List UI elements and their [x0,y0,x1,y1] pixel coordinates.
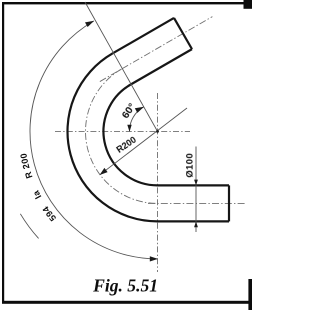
centerline: horizontal pipe axis [148,202,245,204]
center point [156,130,159,133]
border frame left [2,2,4,303]
pipe inner edge arc R54 [103,85,157,186]
dimension: big developed-length arc R127.5 [30,21,158,259]
pipe horizontal bottom edge [158,220,230,222]
dimension: radius line at 120deg to bend start [85,2,158,131]
border frame bottom-right stub [248,279,252,310]
dimension: R200 radius leader line [100,108,187,175]
arrowhead big arc top [85,21,94,27]
arc-length symbol under 594 [20,214,38,239]
border frame top-right stub [244,0,253,9]
pipe inclined end cap [174,18,192,49]
pipe inclined outer edge [113,18,174,54]
arrowhead big arc bottom [150,256,158,261]
centerline: bend arc centerline R72 [86,69,158,203]
pipe horizontal end cap [228,185,230,221]
svg-text:Fig. 5.51: Fig. 5.51 [92,276,158,296]
border frame top [2,2,252,4]
dimension: diameter line for O100 [195,147,197,233]
centerline: horizontal through bend center [55,130,190,132]
arrowhead 60deg bottom [127,125,131,132]
arrowhead R200 leader [100,168,108,175]
pipe horizontal top edge [158,184,230,186]
svg-text:Ø100: Ø100 [185,153,196,178]
centerline: vertical through bend center [157,93,159,272]
pipe outer edge arc R90 [68,53,158,221]
arrowhead 60deg top [135,107,144,113]
arrowhead O100 bottom [194,221,198,227]
pipe inclined inner edge [131,49,192,84]
arrowhead O100 top [194,180,198,186]
centerline: inclined pipe axis [100,17,213,82]
border frame bottom [2,301,252,304]
dimension: 60deg angle arc R28 [129,107,143,131]
